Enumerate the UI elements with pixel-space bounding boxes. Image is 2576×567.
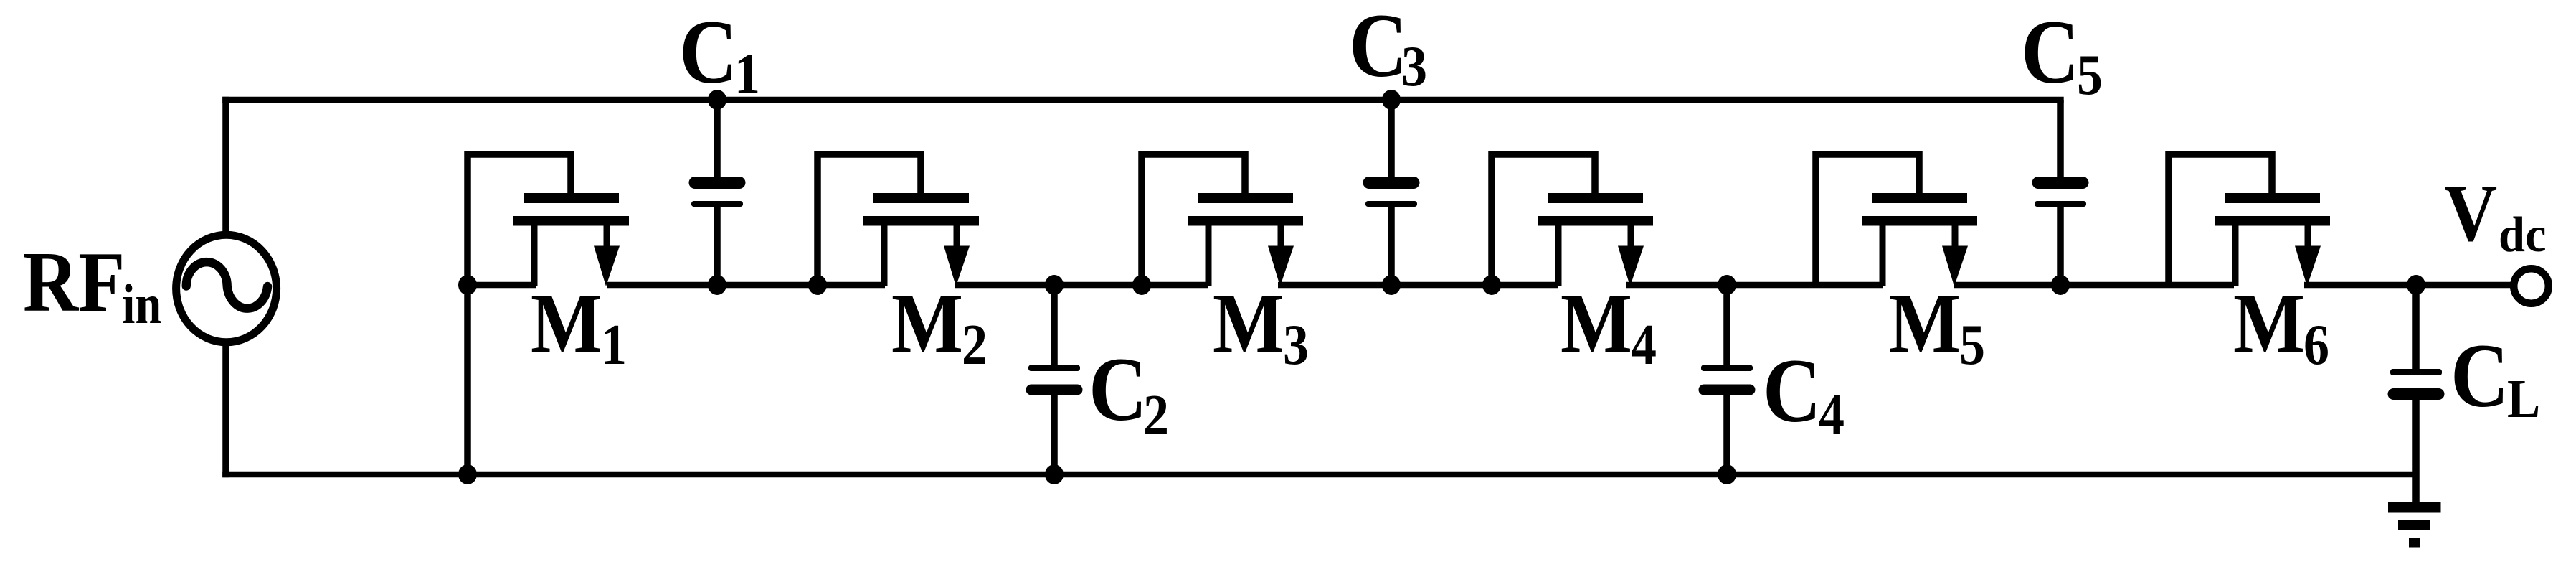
node C4 junction dot xyxy=(1718,275,1736,295)
capacitor C5 xyxy=(2032,100,2089,285)
svg-text:3: 3 xyxy=(1283,314,1309,377)
svg-text:1: 1 xyxy=(601,314,627,377)
label M6 main xyxy=(2233,276,2305,370)
label M4 subscript xyxy=(1631,314,1657,377)
wire main chain segment 4 xyxy=(1278,282,1558,289)
wire main chain segment 1 xyxy=(468,282,536,289)
node ground-rail M1 junction dot xyxy=(458,464,477,484)
label CL main xyxy=(2450,326,2509,427)
label RF_in subscript xyxy=(122,273,161,335)
label M3 subscript xyxy=(1283,314,1309,377)
svg-text:C: C xyxy=(1763,341,1822,442)
svg-text:6: 6 xyxy=(2303,314,2329,377)
node C5 junction dot xyxy=(2051,275,2070,295)
label M5 subscript xyxy=(1959,314,1985,377)
capacitor C2 xyxy=(1026,285,1083,474)
wire top rail (RF hot node) xyxy=(222,97,2064,103)
svg-text:C: C xyxy=(2450,326,2509,427)
label CL subscript xyxy=(2507,368,2540,429)
node M3 gate junction dot xyxy=(1132,275,1151,295)
node C2 junction dot xyxy=(1045,275,1064,295)
svg-text:1: 1 xyxy=(734,43,760,106)
wire main chain segment 7 xyxy=(2304,282,2511,289)
label V_dc subscript xyxy=(2499,206,2547,262)
wire main chain segment 5 xyxy=(1626,282,1883,289)
node M2 gate junction dot xyxy=(808,275,827,295)
svg-text:M: M xyxy=(1889,276,1961,370)
svg-text:2: 2 xyxy=(1143,384,1169,447)
label C3 main xyxy=(1349,0,1408,97)
capacitor C1 xyxy=(689,100,746,285)
node M1 source junction dot xyxy=(458,275,477,295)
svg-text:L: L xyxy=(2507,368,2540,429)
svg-text:dc: dc xyxy=(2499,206,2547,262)
label M5 main xyxy=(1889,276,1961,370)
label M1 main xyxy=(531,276,602,370)
svg-text:in: in xyxy=(122,273,161,335)
label M6 subscript xyxy=(2303,314,2329,377)
svg-text:M: M xyxy=(531,276,602,370)
transistor M5 (diode-connected NMOS) xyxy=(1816,154,1977,286)
svg-text:M: M xyxy=(891,276,963,370)
wire main chain segment 2 xyxy=(607,282,885,289)
svg-text:C: C xyxy=(2021,2,2080,103)
node ground-rail C2 junction dot xyxy=(1045,464,1064,484)
label C4 subscript xyxy=(1819,383,1845,446)
ground xyxy=(2388,474,2441,548)
wire RF source bottom stub xyxy=(222,342,229,477)
transistor M2 (diode-connected NMOS) xyxy=(818,154,979,286)
capacitor CL (load) xyxy=(2388,285,2445,474)
svg-text:5: 5 xyxy=(1959,314,1985,377)
label RF_in main xyxy=(23,234,125,329)
svg-text:4: 4 xyxy=(1819,383,1845,446)
wire RF source top stub xyxy=(222,97,229,235)
node ground-rail C4 junction dot xyxy=(1718,464,1736,484)
label M3 main xyxy=(1213,276,1284,370)
svg-text:C: C xyxy=(679,2,738,103)
svg-text:3: 3 xyxy=(1401,35,1427,98)
svg-text:4: 4 xyxy=(1631,314,1657,377)
voltage source RF_in sine wave xyxy=(186,262,267,309)
wire M1 source to ground rail xyxy=(464,285,471,474)
label V_dc main xyxy=(2444,169,2497,258)
node C3 top-rail junction dot xyxy=(1382,90,1401,110)
label M2 main xyxy=(891,276,963,370)
node C3 junction dot xyxy=(1382,275,1401,295)
label C1 subscript xyxy=(734,43,760,106)
label C2 main xyxy=(1089,339,1147,441)
voltage source RF_in (AC symbol circle) xyxy=(176,235,277,342)
label C5 subscript xyxy=(2077,44,2103,107)
capacitor C4 xyxy=(1699,285,1756,474)
wire main chain segment 6 xyxy=(1954,282,2234,289)
capacitor C3 xyxy=(1363,100,1420,285)
label C5 main xyxy=(2021,2,2080,103)
label C3 subscript xyxy=(1401,35,1427,98)
svg-text:M: M xyxy=(1561,276,1632,370)
label C2 subscript xyxy=(1143,384,1169,447)
transistor M4 (diode-connected NMOS) xyxy=(1492,154,1653,286)
label M4 main xyxy=(1561,276,1632,370)
svg-text:RF: RF xyxy=(23,234,125,329)
svg-text:C: C xyxy=(1349,0,1408,97)
svg-text:C: C xyxy=(1089,339,1147,441)
node C1 junction dot xyxy=(708,275,726,295)
svg-text:2: 2 xyxy=(962,314,988,377)
svg-text:M: M xyxy=(1213,276,1284,370)
transistor M3 (diode-connected NMOS) xyxy=(1142,154,1303,286)
node CL junction dot xyxy=(2407,275,2425,295)
wire bottom rail (ground rail) xyxy=(222,472,2416,478)
transistor M1 (diode-connected NMOS) xyxy=(468,154,629,286)
node M4 gate junction dot xyxy=(1482,275,1501,295)
wire main chain segment 3 xyxy=(955,282,1208,289)
svg-text:V: V xyxy=(2444,169,2497,258)
label M1 subscript xyxy=(601,314,627,377)
label M2 subscript xyxy=(962,314,988,377)
node C1 top-rail junction dot xyxy=(708,90,726,110)
transistor M6 (diode-connected NMOS) xyxy=(2169,154,2330,286)
node V_dc output terminal (open circle) xyxy=(2514,268,2549,304)
label C1 main xyxy=(679,2,738,103)
svg-text:M: M xyxy=(2233,276,2305,370)
label C4 main xyxy=(1763,341,1822,442)
svg-text:5: 5 xyxy=(2077,44,2103,107)
